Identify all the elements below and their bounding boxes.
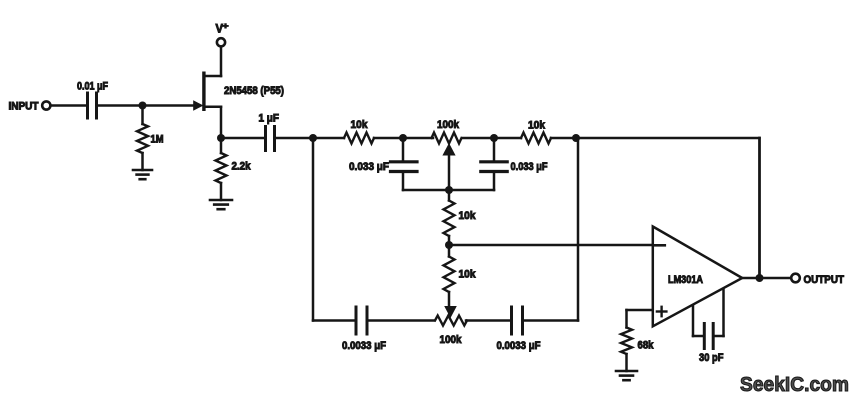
svg-text:SeekIC.com: SeekIC.com xyxy=(740,373,849,396)
svg-text:0.0033 μF: 0.0033 μF xyxy=(497,340,541,352)
svg-text:68k: 68k xyxy=(638,340,655,352)
svg-text:0.033 μF: 0.033 μF xyxy=(511,161,548,173)
svg-text:10k: 10k xyxy=(528,120,546,132)
svg-text:2N5458 (P55): 2N5458 (P55) xyxy=(224,85,284,97)
svg-text:2.2k: 2.2k xyxy=(232,161,252,173)
svg-text:0.033 μF: 0.033 μF xyxy=(349,161,389,173)
svg-text:+: + xyxy=(223,22,229,31)
svg-text:100k: 100k xyxy=(440,334,463,346)
svg-text:10k: 10k xyxy=(459,269,477,281)
svg-text:OUTPUT: OUTPUT xyxy=(804,274,845,286)
svg-text:0.0033 μF: 0.0033 μF xyxy=(342,340,386,352)
svg-text:1M: 1M xyxy=(151,134,164,146)
svg-text:100k: 100k xyxy=(437,119,460,131)
svg-text:LM301A: LM301A xyxy=(668,274,703,286)
svg-text:1 μF: 1 μF xyxy=(259,113,280,125)
svg-text:30 pF: 30 pF xyxy=(699,352,724,364)
svg-text:INPUT: INPUT xyxy=(9,101,39,113)
svg-text:10k: 10k xyxy=(459,210,477,222)
svg-text:0.01 μF: 0.01 μF xyxy=(77,81,108,93)
svg-text:10k: 10k xyxy=(351,119,369,131)
